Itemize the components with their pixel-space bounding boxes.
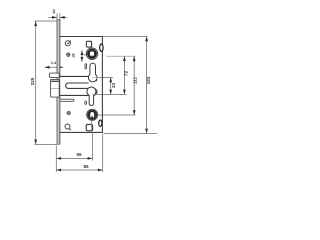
- svg-text:ø8: ø8: [72, 53, 76, 57]
- svg-text:85: 85: [83, 164, 89, 169]
- svg-text:111: 111: [133, 76, 138, 84]
- svg-text:65: 65: [76, 152, 82, 157]
- svg-text:33: 33: [111, 82, 116, 88]
- svg-text:1.4: 1.4: [51, 60, 57, 65]
- svg-text:225: 225: [30, 77, 35, 85]
- svg-text:72: 72: [124, 71, 129, 77]
- svg-text:3: 3: [52, 10, 55, 16]
- svg-text:183: 183: [146, 76, 151, 84]
